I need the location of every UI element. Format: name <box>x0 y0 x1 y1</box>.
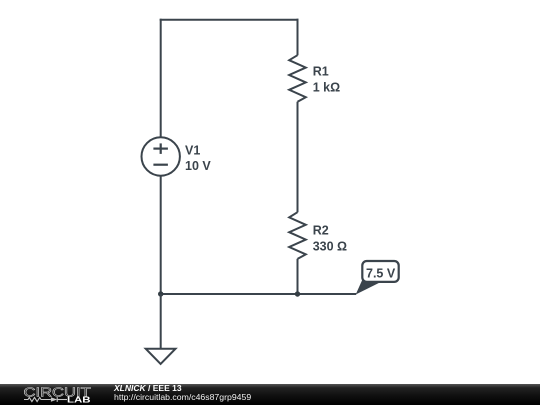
label V1 value <box>185 144 211 174</box>
footer bar <box>0 384 540 405</box>
svg-text:1 kΩ: 1 kΩ <box>313 81 340 95</box>
voltage source V1 <box>142 137 180 175</box>
junction node right (R2 bottom) <box>295 291 300 296</box>
junction node left (V1 / ground / bottom rail) <box>158 291 163 296</box>
svg-text:V1: V1 <box>185 144 200 158</box>
wire left vertical upper (top rail to V1 top) <box>160 19 162 138</box>
CircuitLab logo <box>16 384 100 405</box>
wire right vertical lower (R2 to bottom rail) <box>297 259 299 294</box>
svg-text:330 Ω: 330 Ω <box>313 239 347 253</box>
svg-text:R1: R1 <box>313 65 329 79</box>
wire right vertical upper (top rail to R1) <box>297 19 299 56</box>
label R2 value <box>313 224 347 254</box>
wire right vertical middle (R1 to R2) <box>297 102 299 213</box>
wire top horizontal <box>160 19 299 21</box>
svg-text:R2: R2 <box>313 224 329 238</box>
svg-text:10 V: 10 V <box>185 159 211 173</box>
footer metadata text <box>114 384 251 403</box>
resistor R2 <box>289 212 306 259</box>
wire left vertical lower (V1 bottom to ground node) <box>160 176 162 294</box>
ground <box>146 294 176 364</box>
svg-text:LAB: LAB <box>67 396 91 405</box>
node voltage flag 7.5 V <box>356 261 399 295</box>
wire bottom horizontal <box>161 293 357 295</box>
label R1 value <box>313 65 340 95</box>
svg-text:7.5 V: 7.5 V <box>366 266 396 280</box>
resistor R1 <box>289 55 306 102</box>
